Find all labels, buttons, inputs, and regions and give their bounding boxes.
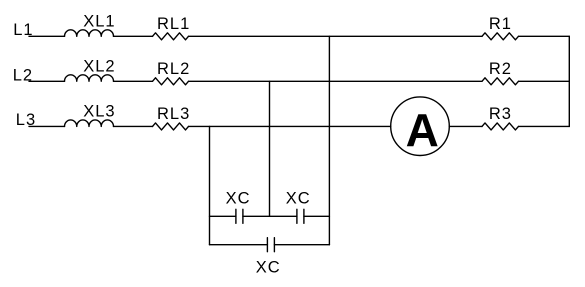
svg-text:XC: XC [256, 259, 281, 277]
wire cap row upper right [304, 215, 330, 217]
inductor XL2 [65, 75, 114, 82]
resistor R1 [482, 33, 518, 40]
resistor R3 [482, 123, 518, 130]
resistor RL2 [153, 78, 189, 85]
wire R1 right [519, 35, 570, 37]
svg-text:L2: L2 [13, 66, 33, 84]
svg-text:RL3: RL3 [157, 105, 190, 123]
wire R3 right [519, 125, 570, 127]
wire L3 left [29, 125, 65, 127]
wire L1 long [189, 35, 483, 37]
svg-text:R1: R1 [489, 15, 512, 33]
wire L2 long [189, 80, 483, 82]
resistor R2 [482, 78, 518, 85]
wire L3 to ammeter [189, 125, 391, 127]
wire L1 mid [114, 35, 153, 37]
resistor RL3 [153, 123, 189, 130]
capacitor XC bottom [267, 238, 274, 252]
inductor XL1 [65, 30, 114, 37]
svg-text:R3: R3 [489, 105, 512, 123]
wire cap row lower left [210, 244, 268, 246]
svg-text:L1: L1 [13, 21, 33, 39]
wire branch vertical from L3 node [209, 126, 211, 244]
wire L2 left [29, 80, 65, 82]
svg-text:L3: L3 [16, 111, 36, 129]
wire cap row lower right [274, 244, 329, 246]
svg-text:XL3: XL3 [83, 103, 115, 121]
svg-text:RL1: RL1 [157, 15, 190, 33]
wire cap row upper left [210, 215, 236, 217]
wire L2 mid [114, 80, 153, 82]
wire branch vertical from L1 node [328, 36, 330, 244]
svg-text:XC: XC [226, 190, 251, 208]
svg-text:R2: R2 [489, 60, 512, 78]
svg-text:A: A [406, 104, 439, 156]
wire R2 right [519, 80, 570, 82]
capacitor XC left [236, 209, 243, 223]
resistor RL1 [153, 33, 189, 40]
wire branch vertical from L2 node [269, 81, 271, 216]
capacitor XC right [297, 209, 304, 223]
wire right bus vertical [568, 36, 570, 126]
inductor XL3 [65, 120, 114, 127]
wire ammeter to R3 [449, 125, 482, 127]
ammeter U1 circle [391, 97, 450, 156]
wire L1 left [29, 35, 65, 37]
svg-text:XL1: XL1 [83, 12, 115, 30]
wire L3 mid [114, 125, 153, 127]
svg-text:RL2: RL2 [157, 60, 190, 78]
svg-text:XC: XC [286, 190, 311, 208]
svg-text:XL2: XL2 [83, 57, 115, 75]
wire cap row upper middle [243, 215, 297, 217]
